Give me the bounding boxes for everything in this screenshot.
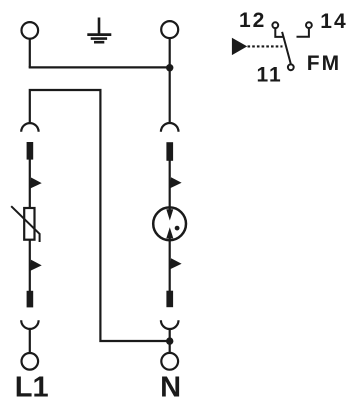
disconnect pin top L1 branch (27, 142, 34, 160)
disconnect arc top N branch (161, 123, 179, 132)
wire (169, 161, 171, 211)
wire (169, 329, 171, 353)
disconnect pin bottom N branch (166, 291, 173, 308)
terminal circle PE right (161, 21, 178, 38)
ground (87, 18, 111, 43)
wire (169, 38, 171, 123)
contact terminal circle 12 (272, 22, 278, 28)
disconnect arc top L1 branch (21, 123, 38, 132)
terminal circle PE left (22, 22, 39, 39)
contact 14 bracket (297, 29, 309, 37)
junction dot (166, 337, 173, 344)
dashed actuation line (248, 45, 283, 47)
disconnect arc bottom N branch (161, 320, 179, 329)
arrow (169, 258, 181, 269)
disconnect pin top N branch (166, 142, 173, 161)
svg-text:11: 11 (257, 64, 283, 87)
arrow signal direction FM (232, 38, 247, 55)
contact lever 11 common (282, 32, 291, 64)
junction dot (166, 64, 173, 71)
contact 12 bracket (275, 29, 283, 37)
arrow (169, 177, 181, 188)
wire (30, 90, 170, 341)
svg-text:N: N (160, 372, 181, 404)
contact terminal circle 14 (306, 22, 312, 28)
svg-text:FM: FM (307, 52, 341, 75)
svg-text:L1: L1 (15, 372, 49, 404)
spark gap gas discharge tube (153, 207, 186, 240)
wire (29, 39, 31, 68)
disconnect pin bottom L1 branch (27, 291, 34, 308)
svg-text:12: 12 (239, 9, 266, 32)
contact terminal circle 11 (288, 64, 294, 70)
svg-text:14: 14 (320, 10, 347, 33)
wire (29, 159, 31, 208)
terminal circle N (161, 353, 178, 370)
wire (29, 329, 31, 353)
wire (169, 238, 171, 292)
terminal circle L1 (22, 353, 39, 370)
varistor (11, 206, 39, 242)
arrow (29, 260, 41, 271)
disconnect arc bottom L1 branch (21, 320, 38, 329)
wire (29, 240, 31, 291)
wire (29, 66, 170, 68)
arrow (29, 178, 41, 189)
